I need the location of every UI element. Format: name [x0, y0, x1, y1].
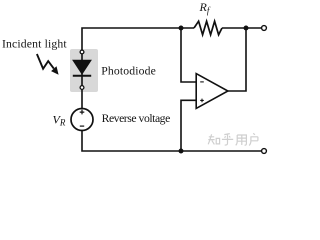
wire photodiode vertical through diode to source [81, 52, 83, 109]
wire top-left from photodiode up and right to resistor [82, 28, 194, 52]
wire noninverting input down to ground rail [181, 100, 196, 151]
output terminal bottom [262, 149, 267, 154]
svg-text:Incident light: Incident light [2, 38, 67, 51]
watermark zhihu user [208, 133, 258, 145]
photodiode D1 triangle [73, 60, 91, 74]
op-amp U1 [196, 74, 228, 109]
resistor Rf [194, 21, 222, 35]
junction dot output-top [244, 26, 249, 31]
junction dot feedback-top [179, 26, 184, 31]
plus sign [80, 110, 85, 115]
node circle bottom of photodiode [80, 86, 84, 90]
svg-text:Reverse voltage: Reverse voltage [102, 112, 170, 125]
wire resistor right to output terminal [222, 27, 262, 29]
junction dot ground rail [179, 149, 184, 154]
photodiode cathode bar [73, 75, 91, 77]
op-amp minus input mark [200, 81, 204, 83]
wire op-amp output up to top rail [228, 28, 246, 91]
wire feedback node down to inverting input [181, 28, 196, 82]
glyph yong [236, 135, 247, 145]
glyph hu [222, 134, 233, 145]
svg-text:Photodiode: Photodiode [101, 64, 156, 77]
output terminal top [262, 26, 267, 31]
wire source bottom to ground rail [82, 130, 262, 151]
minus sign [80, 125, 84, 127]
voltage source VR [71, 109, 93, 131]
node circle top of photodiode [80, 50, 84, 54]
glyph hu2 [249, 133, 258, 145]
op-amp plus input mark [200, 99, 204, 103]
photodiode body shaded box [70, 49, 98, 92]
glyph zhi [208, 134, 219, 144]
incident light arrow [37, 54, 54, 69]
